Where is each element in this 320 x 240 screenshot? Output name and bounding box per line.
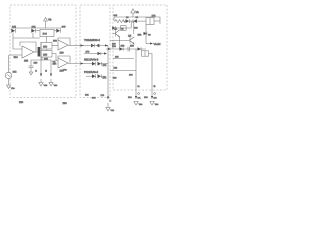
svg-text:REC/AVG-II: REC/AVG-II [84, 59, 99, 62]
diode row2 middle [98, 52, 101, 55]
dark element 253 [38, 47, 41, 57]
diode pair row4 [92, 74, 95, 78]
wire 250 output [52, 45, 58, 47]
ground under Vin [7, 85, 11, 89]
svg-text:278: 278 [152, 15, 157, 18]
wire middle drop [107, 46, 109, 100]
svg-text:282: 282 [138, 34, 143, 37]
wire supply bus right [114, 17, 160, 24]
supply symbol Va [131, 9, 135, 13]
wire Q2 collector [133, 21, 135, 34]
diode D9 [144, 32, 147, 35]
diode D3 [56, 29, 60, 33]
svg-text:234: 234 [92, 97, 96, 100]
supply symbol Vb [44, 18, 48, 22]
capacitor C1 [29, 65, 34, 67]
svg-text:266: 266 [60, 52, 65, 55]
svg-text:256: 256 [53, 40, 58, 43]
ground G2 [39, 83, 43, 87]
svg-text:Vb: Vb [48, 18, 52, 22]
svg-text:18: 18 [136, 16, 139, 19]
wire U3 output [68, 63, 92, 65]
wire row4 [86, 75, 92, 77]
svg-text:Ia: Ia [138, 85, 141, 88]
svg-text:TRIMMING-II: TRIMMING-II [84, 39, 100, 42]
svg-text:292: 292 [114, 67, 118, 70]
diode D6 [120, 47, 123, 51]
svg-text:293: 293 [113, 77, 117, 80]
ground G3 [49, 83, 53, 87]
diode D4 [126, 19, 130, 23]
AC source Vin [5, 72, 11, 78]
diode D5 [132, 19, 134, 23]
svg-text:PKD/AVG-II: PKD/AVG-II [84, 71, 98, 74]
wire row1 [82, 45, 108, 47]
ground small [29, 72, 33, 75]
svg-text:286: 286 [121, 45, 126, 48]
wire horizontal link [110, 70, 136, 72]
current source arrow I2 [50, 66, 52, 76]
resistor R1 [114, 20, 126, 23]
diode pair row1 [91, 44, 94, 48]
svg-text:Vss: Vss [63, 69, 68, 72]
svg-text:I2: I2 [45, 70, 48, 73]
svg-text:288: 288 [130, 44, 135, 47]
wire D2 drop [32, 33, 34, 38]
ground right1 [134, 102, 138, 106]
wire 146 vertical [145, 25, 147, 44]
wire vertical Ib [149, 54, 153, 91]
svg-text:240: 240 [12, 25, 17, 28]
svg-text:272: 272 [103, 64, 108, 67]
svg-text:252: 252 [24, 60, 29, 63]
svg-text:283: 283 [112, 42, 116, 45]
wire junction drop [130, 21, 132, 28]
wire U1 output [34, 51, 38, 53]
op-amp U2 [58, 40, 68, 50]
svg-text:Vhold: Vhold [154, 43, 161, 46]
svg-text:Io1: Io1 [138, 97, 142, 100]
wire to op-amp input [13, 38, 22, 49]
wire row2 with arrow [84, 53, 104, 55]
svg-text:Io2: Io2 [154, 97, 158, 100]
wire vertical node [40, 42, 42, 60]
diode pair row3 [92, 62, 95, 66]
svg-text:260: 260 [34, 62, 39, 65]
svg-text:282: 282 [134, 27, 138, 30]
svg-text:258: 258 [43, 54, 48, 57]
svg-text:242: 242 [32, 25, 37, 28]
svg-text:290: 290 [129, 74, 133, 77]
svg-text:Vss: Vss [155, 103, 160, 106]
svg-text:244: 244 [43, 33, 48, 36]
svg-text:276: 276 [101, 94, 105, 97]
wire block right [154, 20, 160, 22]
svg-text:270: 270 [86, 51, 91, 54]
wire supply bus left [11, 27, 61, 29]
wire row3 right block [113, 58, 134, 60]
current source arrow I1 [40, 66, 42, 76]
diode D8 edge [112, 26, 115, 29]
diode D2 [31, 29, 35, 33]
svg-text:Vss: Vss [111, 109, 116, 112]
svg-text:274: 274 [103, 77, 108, 80]
wire Vin down [8, 79, 10, 85]
svg-text:294: 294 [128, 96, 132, 99]
block 289 hold cap [142, 51, 149, 56]
capacitor C2 [127, 47, 129, 52]
dashed block border 240 (middle trimming block) [80, 5, 110, 98]
wire diode link [129, 20, 133, 22]
output arrow Vhold [146, 43, 150, 45]
ground middle [106, 108, 110, 112]
svg-text:296: 296 [144, 96, 148, 99]
current arrow out1 [135, 90, 137, 99]
diode D7 [138, 47, 141, 51]
wire 258 output [52, 54, 58, 61]
svg-text:Vss: Vss [54, 84, 59, 87]
wire U1 input lower [9, 54, 22, 56]
block 258 [41, 51, 52, 58]
wire vertical Ia [135, 49, 137, 90]
wire 250 to 258 [46, 49, 48, 51]
svg-text:I1: I1 [35, 70, 38, 73]
svg-text:210: 210 [14, 56, 19, 59]
wire U2 output [68, 45, 84, 47]
svg-text:284: 284 [112, 45, 117, 48]
svg-text:16: 16 [126, 16, 129, 19]
svg-text:30: 30 [148, 33, 151, 36]
block 280 small [121, 26, 127, 31]
svg-text:Vss: Vss [11, 87, 16, 90]
svg-text:Vss: Vss [44, 84, 49, 87]
wire lower rail [31, 60, 51, 66]
wire row2 right block [106, 48, 146, 50]
svg-text:Vss: Vss [139, 103, 144, 106]
svg-text:220: 220 [19, 101, 24, 104]
block 250 [41, 43, 52, 50]
wire U3 feedback [58, 56, 70, 63]
ground right2 [150, 102, 154, 106]
svg-text:Q2: Q2 [128, 35, 132, 38]
wire U1 feedback [20, 42, 36, 52]
svg-text:230: 230 [63, 102, 68, 105]
dashed block border 220 (left input/amplifier block) [10, 5, 76, 98]
wire Q1 emitter [119, 37, 121, 49]
svg-text:285: 285 [115, 56, 119, 59]
arrow middle drop [107, 97, 109, 100]
svg-text:232: 232 [85, 94, 89, 97]
wire 244 to 250 [46, 37, 48, 43]
svg-text:246: 246 [62, 26, 67, 29]
wire bus drop left [113, 17, 115, 21]
svg-text:Ib: Ib [154, 85, 157, 88]
svg-text:Va: Va [136, 10, 140, 14]
wire U2 feedback [58, 38, 70, 45]
svg-text:250: 250 [43, 46, 48, 49]
wire row2 left [113, 27, 131, 29]
block 278 [146, 18, 154, 25]
dashed block border 260 (right bias/output block) [113, 5, 167, 90]
wire Vin up [8, 55, 10, 72]
diode D1 [11, 29, 15, 33]
block 244 [40, 30, 54, 37]
op-amp U3 [58, 58, 68, 68]
current arrow out2 [151, 90, 153, 99]
op-amp U1 [22, 46, 34, 58]
wire D1 branch [13, 33, 40, 38]
svg-text:212: 212 [13, 71, 18, 74]
